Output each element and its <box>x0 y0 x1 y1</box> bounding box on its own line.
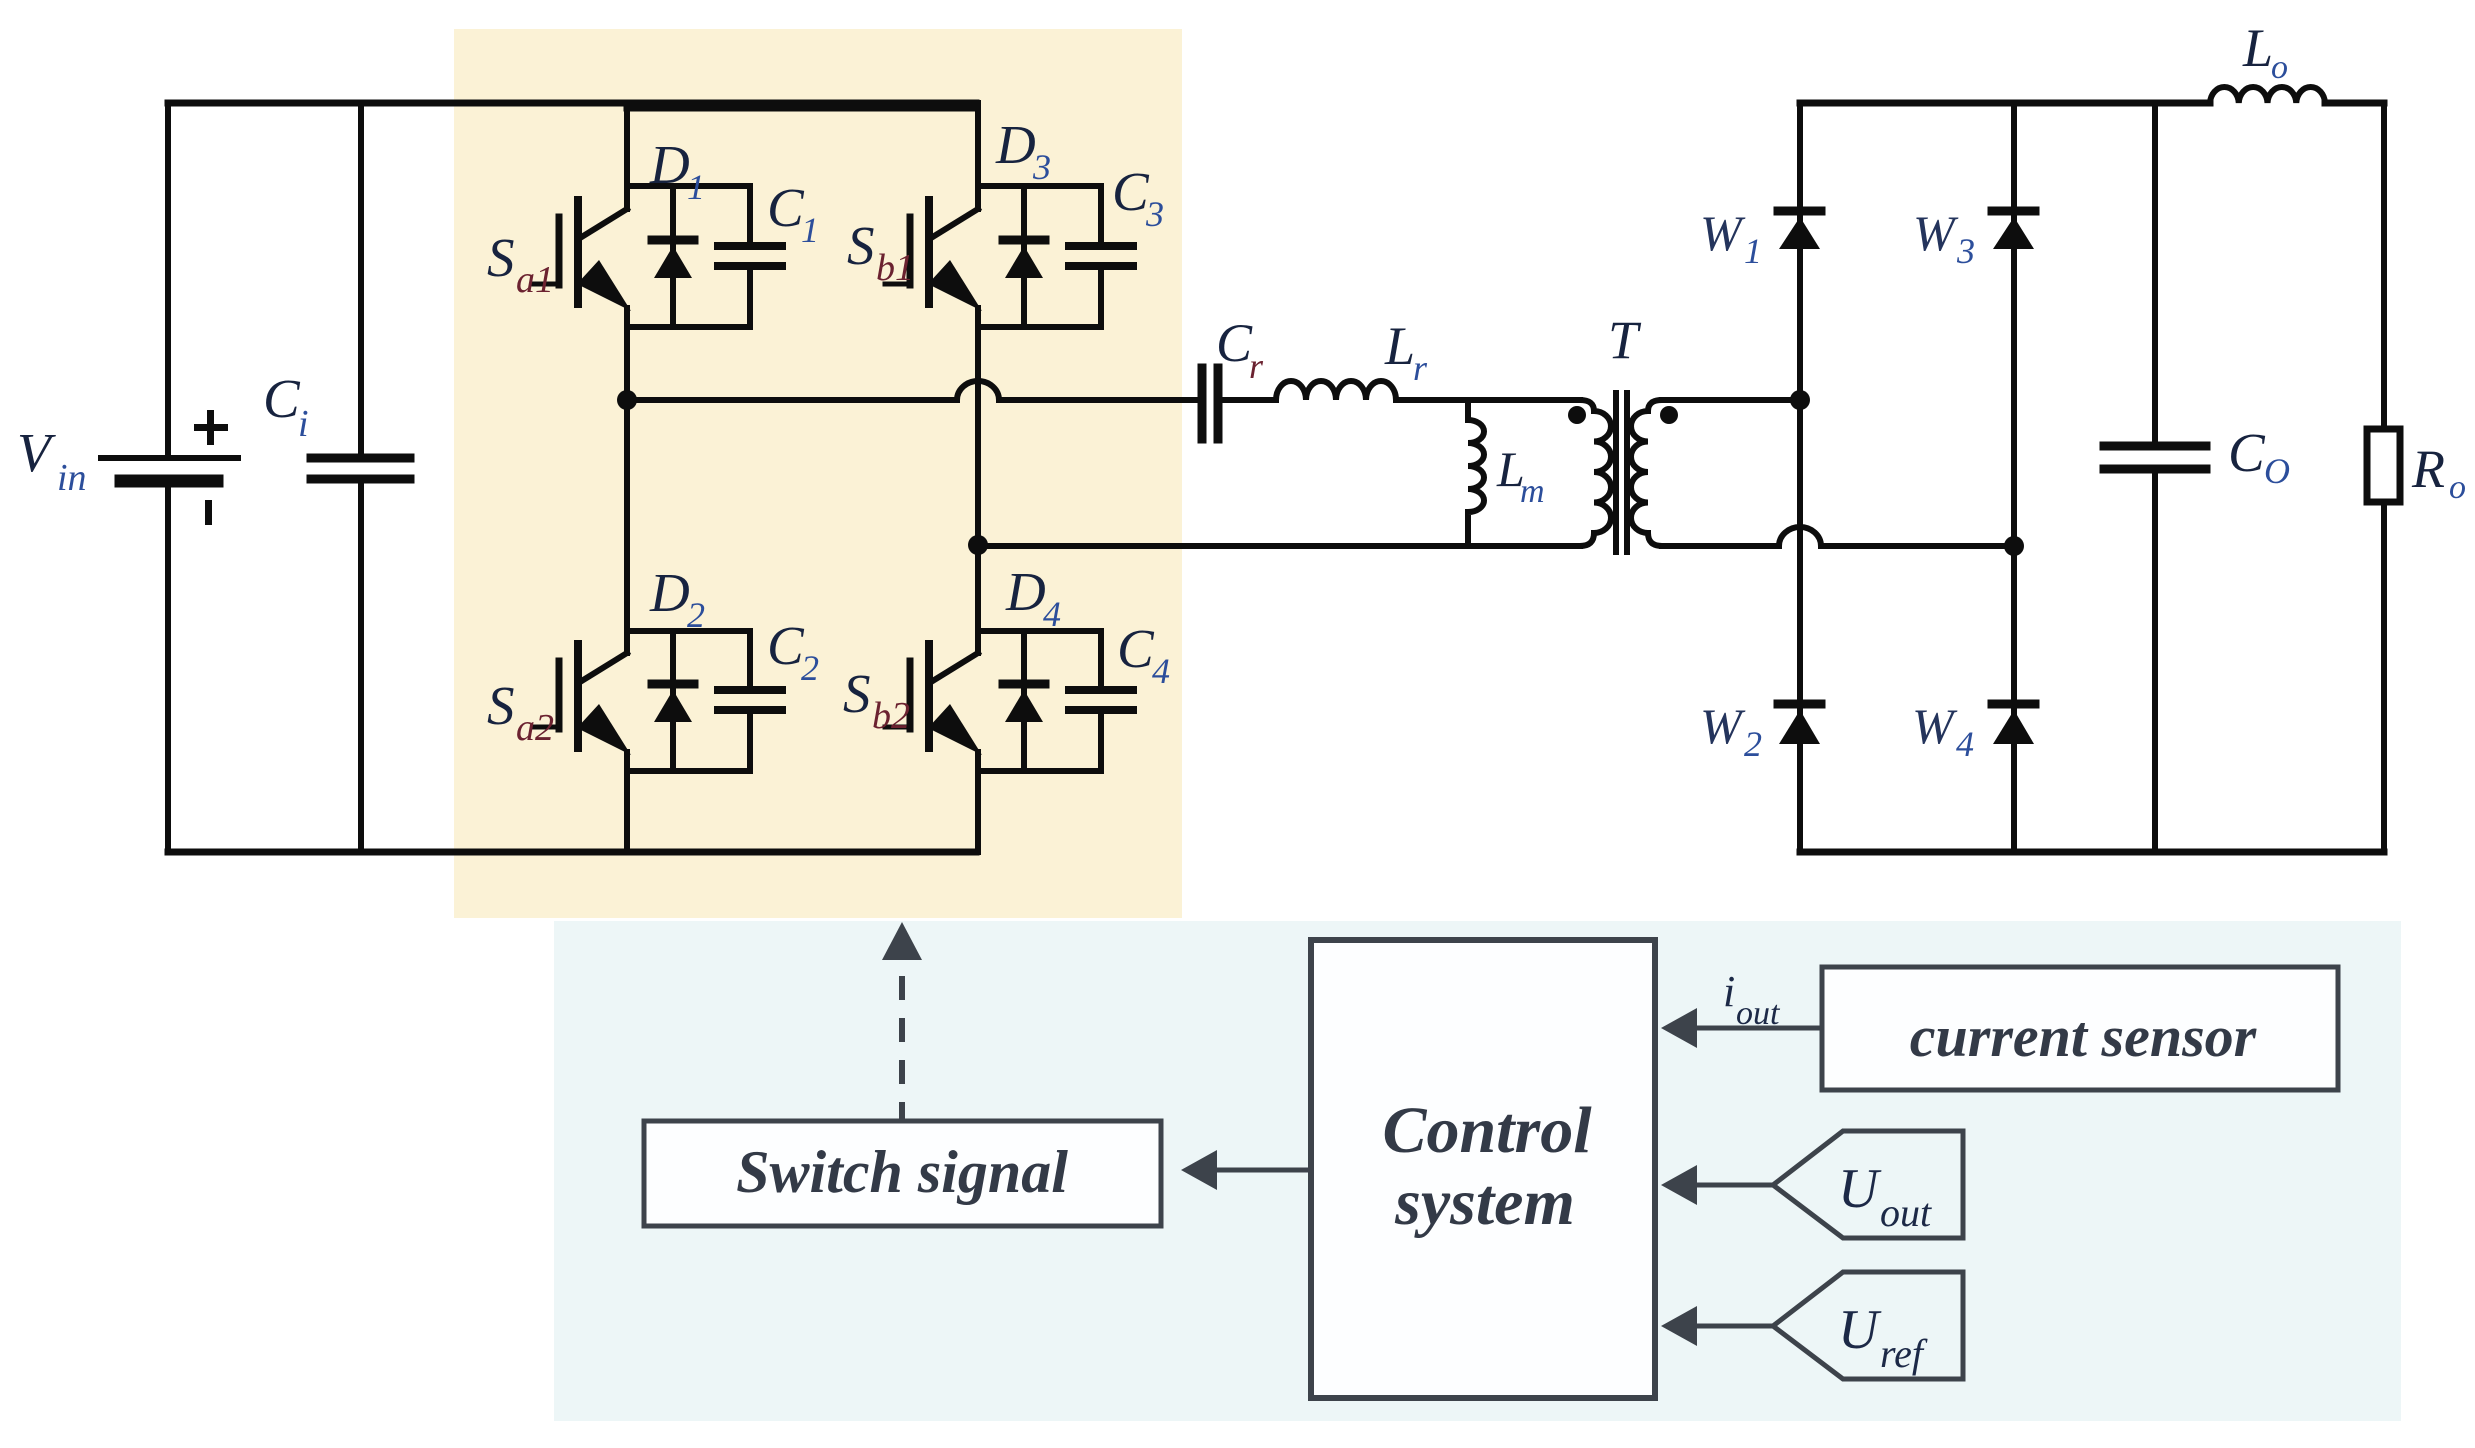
svg-text:in: in <box>57 457 87 499</box>
svg-text:W: W <box>1700 698 1746 754</box>
arrowhead: Uref into control box <box>1661 1306 1697 1346</box>
box: Switch signal <box>644 1121 1161 1226</box>
svg-text:b2: b2 <box>872 695 910 737</box>
diode W2 cathode bar <box>1778 700 1821 709</box>
capacitor C3 <box>1098 186 1104 327</box>
svg-text:a1: a1 <box>516 259 554 301</box>
svg-text:C: C <box>1216 313 1253 373</box>
svg-text:1: 1 <box>687 167 705 207</box>
svg-text:3: 3 <box>1145 194 1164 234</box>
pentagon tag Uout <box>1773 1131 1963 1238</box>
wire: Sa1 cell bottom <box>627 324 750 330</box>
capacitor Ci branch upper <box>358 103 364 454</box>
battery Vin left rail upper <box>165 103 171 455</box>
svg-text:R: R <box>2411 439 2445 499</box>
svg-text:Control: Control <box>1382 1094 1592 1167</box>
capacitor Cr plate left <box>1198 368 1207 439</box>
box: Control system <box>1311 940 1655 1398</box>
arrowhead: iout into control box <box>1661 1008 1697 1048</box>
wire: Lr to transformer <box>1396 397 1580 403</box>
svg-text:2: 2 <box>687 595 705 635</box>
resistor Ro body <box>2367 429 2400 502</box>
wire: Sb1 cell top <box>978 183 1101 189</box>
svg-text:2: 2 <box>1744 724 1762 764</box>
svg-text:o: o <box>2271 49 2288 86</box>
svg-text:T: T <box>1608 310 1642 370</box>
transformer T core bars <box>1616 393 1627 552</box>
wire: load branch lower <box>2381 502 2387 852</box>
svg-text:S: S <box>487 675 515 736</box>
wire: current sensor to control arrow line <box>1694 1026 1822 1031</box>
capacitor Cr plate right <box>1214 368 1223 439</box>
wire: Sb1 emitter to node B <box>975 308 981 545</box>
diode D4 triangle <box>1005 690 1043 722</box>
IGBT Sa1 <box>574 200 582 304</box>
wire: Lo to load <box>2325 100 2384 107</box>
diode W1 triangle <box>1779 217 1820 249</box>
svg-text:S: S <box>847 215 875 276</box>
svg-text:U: U <box>1838 1158 1882 1220</box>
svg-text:out: out <box>1880 1190 1932 1235</box>
wire: input bottom rail <box>168 849 976 856</box>
node B junction dot <box>968 535 988 555</box>
arrowhead: dashed arrow tip <box>882 922 922 960</box>
wire: rectifier top rail with inductor Lo <box>1800 100 2210 107</box>
svg-text:current sensor: current sensor <box>1910 1004 2257 1069</box>
svg-text:i: i <box>1723 967 1735 1016</box>
svg-text:out: out <box>1736 995 1781 1032</box>
svg-text:a2: a2 <box>516 707 554 749</box>
transformer primary polarity dot <box>1568 406 1586 424</box>
capacitor Co plate bottom <box>2104 465 2206 474</box>
svg-text:o: o <box>2449 469 2466 506</box>
svg-text:m: m <box>1520 473 1545 510</box>
svg-text:S: S <box>843 663 871 724</box>
wire: Cr to Lr <box>1222 397 1276 403</box>
battery Vin plate positive <box>101 455 238 461</box>
svg-text:b1: b1 <box>876 247 914 289</box>
diode W2 triangle <box>1779 710 1820 744</box>
inductor Lo <box>2210 87 2325 103</box>
dashed arrow: switch signal to inverter <box>899 967 905 1126</box>
IGBT Sb2 <box>925 644 933 748</box>
battery Vin plate negative <box>121 475 217 488</box>
svg-text:W: W <box>1913 205 1959 261</box>
wire: secondary top to rectifier <box>1662 397 1800 403</box>
IGBT Sb1 <box>925 200 933 304</box>
svg-text:L: L <box>1384 316 1415 376</box>
capacitor C2 <box>747 631 753 771</box>
svg-text:system: system <box>1394 1166 1575 1239</box>
control highlight region <box>554 921 2401 1421</box>
node A junction dot <box>617 390 637 410</box>
wire: Sa2 cell top <box>627 628 750 634</box>
svg-text:4: 4 <box>1152 651 1170 691</box>
diode W3 cathode bar <box>1992 207 2035 216</box>
battery plus sign <box>194 410 228 445</box>
svg-text:C: C <box>1112 161 1150 222</box>
diode D4 <box>1021 631 1027 771</box>
svg-text:r: r <box>1413 348 1428 388</box>
wire: node A to resonant tank with crossover hump <box>627 381 1198 400</box>
svg-text:1: 1 <box>801 210 819 250</box>
node: secondary top junction dot <box>1790 390 1810 410</box>
svg-text:2: 2 <box>801 648 819 688</box>
svg-text:D: D <box>995 114 1036 175</box>
wire: input top rail <box>168 100 976 107</box>
capacitor Ci plate bottom <box>311 475 410 484</box>
arrowhead: Uout into control box <box>1661 1165 1697 1205</box>
svg-text:V: V <box>17 422 56 483</box>
svg-text:O: O <box>2264 451 2290 491</box>
svg-text:C: C <box>767 177 805 238</box>
capacitor Co plate top <box>2104 442 2206 451</box>
wire: control to switch signal arrow line <box>1217 1168 1311 1173</box>
inductor Lm <box>1468 400 1484 546</box>
svg-text:D: D <box>1005 561 1046 622</box>
wire: leg a collector drop (Sa1) <box>624 103 630 209</box>
capacitor C1 <box>747 186 753 327</box>
arrowhead: into switch signal box <box>1181 1150 1217 1190</box>
diode D1 <box>670 186 676 327</box>
svg-text:3: 3 <box>1956 231 1975 271</box>
IGBT Sb1 emitter arrow <box>928 260 982 311</box>
svg-text:W: W <box>1912 698 1958 754</box>
wire: node B to transformer primary bottom <box>978 543 1580 549</box>
transformer T secondary winding <box>1631 400 1662 546</box>
inductor Lr <box>1276 381 1396 400</box>
diode W4 triangle <box>1993 710 2034 744</box>
capacitor Ci branch lower <box>358 484 364 852</box>
wire: Sb2 cell top <box>978 628 1101 634</box>
svg-text:ref: ref <box>1880 1331 1928 1376</box>
inverter highlight region <box>454 29 1182 918</box>
diode W4 cathode bar <box>1992 700 2035 709</box>
wire: top rail doubled segment <box>627 105 976 112</box>
wire: Sa1 cell top <box>627 183 750 189</box>
svg-text:L: L <box>2242 18 2273 78</box>
svg-text:C: C <box>263 368 301 429</box>
svg-text:U: U <box>1838 1299 1882 1361</box>
wire: load branch upper <box>2381 103 2387 429</box>
diode W3 triangle <box>1993 217 2034 249</box>
svg-text:C: C <box>767 615 805 676</box>
svg-text:Switch signal: Switch signal <box>736 1139 1068 1205</box>
svg-text:C: C <box>1117 618 1155 679</box>
wire: Sa2 emitter to bottom rail <box>624 752 630 852</box>
svg-text:i: i <box>298 403 309 445</box>
wire: leg b collector drop (Sb1) <box>975 103 981 209</box>
svg-text:D: D <box>649 562 690 623</box>
wire: leg a emitter to node A <box>624 308 630 400</box>
battery Vin left rail lower <box>165 487 171 852</box>
wire: Uout to control arrow line <box>1694 1183 1773 1188</box>
capacitor Co branch upper <box>2152 103 2158 442</box>
svg-text:4: 4 <box>1043 594 1061 634</box>
svg-text:S: S <box>487 227 515 288</box>
diode D3 triangle <box>1005 246 1043 278</box>
IGBT Sa2 emitter arrow <box>577 704 631 755</box>
svg-text:3: 3 <box>1032 147 1051 187</box>
IGBT Sb2 emitter arrow <box>928 704 982 755</box>
svg-text:W: W <box>1700 205 1746 261</box>
svg-text:D: D <box>649 134 690 195</box>
wire: rectifier leg W1 W2 <box>1797 103 1803 852</box>
wire: Uref to control arrow line <box>1694 1324 1773 1329</box>
diode D2 <box>670 631 676 771</box>
wire: Sa2 cell bottom <box>627 768 750 774</box>
svg-text:4: 4 <box>1956 724 1974 764</box>
diode D2 triangle <box>654 690 692 722</box>
transformer secondary polarity dot <box>1660 406 1678 424</box>
wire: secondary bottom to rectifier with crossover hump <box>1662 527 2014 546</box>
capacitor C4 <box>1098 631 1104 771</box>
capacitor Co branch lower <box>2152 474 2158 852</box>
wire: Sb2 cell bottom <box>978 768 1101 774</box>
wire: Sb2 emitter to bottom rail <box>975 752 981 852</box>
diode D3 <box>1021 186 1027 327</box>
wire: node B to Sb2 collector <box>975 545 981 653</box>
svg-text:C: C <box>2228 422 2266 483</box>
diode D1 triangle <box>654 246 692 278</box>
svg-text:1: 1 <box>1744 231 1762 271</box>
pentagon tag Uref <box>1773 1272 1963 1379</box>
wire: rectifier leg W3 W4 <box>2011 103 2017 852</box>
box: current sensor <box>1822 967 2338 1090</box>
wire: Sb1 cell bottom <box>978 324 1101 330</box>
transformer T primary winding <box>1580 400 1611 546</box>
IGBT Sa2 <box>574 644 582 748</box>
svg-text:r: r <box>1249 346 1264 386</box>
battery minus mark <box>205 500 212 525</box>
wire: rectifier bottom rail <box>1800 849 2384 856</box>
diode W1 cathode bar <box>1778 207 1821 216</box>
node: secondary bottom junction dot <box>2004 536 2024 556</box>
IGBT Sa1 emitter arrow <box>577 260 631 311</box>
capacitor Ci plate top <box>311 454 410 463</box>
wire: node A to Sa2 collector <box>624 400 630 653</box>
